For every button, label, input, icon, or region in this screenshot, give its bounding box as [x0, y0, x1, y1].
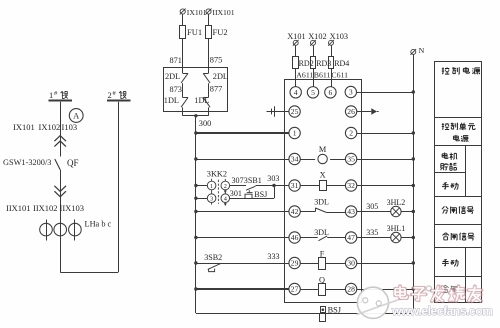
- svg-text:www.elecfans.com: www.elecfans.com: [391, 304, 493, 318]
